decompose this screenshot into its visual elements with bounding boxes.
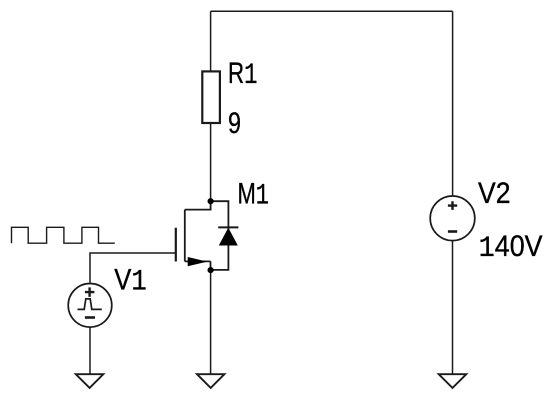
body diode triangle	[219, 228, 238, 246]
V1 pulse glyph	[78, 299, 102, 310]
transistor M1 drain bend + channel + source bend	[185, 201, 211, 270]
node drain junction dot	[208, 198, 214, 204]
svg-text:9: 9	[228, 107, 241, 140]
wire rail to R1 top	[210, 11, 212, 71]
svg-text:V1: V1	[114, 264, 147, 300]
transistor M1 source arrow	[188, 257, 208, 266]
V2 plus sign	[448, 201, 457, 210]
voltage source V2 circle	[430, 196, 475, 241]
ground (M1 source)	[197, 374, 224, 388]
wire source node to ground	[210, 270, 212, 374]
body diode cathode bar	[218, 226, 238, 228]
voltage source V1 circle	[68, 284, 112, 328]
wire rail to V2 top	[452, 11, 454, 196]
svg-text:R1: R1	[228, 57, 258, 93]
transistor M1 gate bar	[175, 228, 177, 262]
resistor R1	[202, 71, 220, 123]
V1 minus sign	[85, 316, 95, 319]
V1 plus sign	[85, 287, 95, 297]
svg-text:140V: 140V	[479, 230, 543, 266]
wire V1 to ground	[89, 327, 91, 374]
wire gate lead	[90, 253, 176, 284]
wire R1 bottom to drain node	[210, 123, 212, 201]
V2 minus sign	[448, 230, 457, 233]
wire top rail	[211, 10, 453, 12]
svg-text:M1: M1	[238, 177, 270, 213]
wire V2 to ground	[452, 241, 454, 375]
ground (V1)	[76, 374, 104, 388]
body diode branch wires	[211, 201, 229, 270]
svg-text:V2: V2	[478, 177, 511, 210]
ground (V2)	[439, 374, 467, 388]
pulse waveform icon	[12, 227, 115, 243]
node source junction dot	[208, 267, 214, 273]
